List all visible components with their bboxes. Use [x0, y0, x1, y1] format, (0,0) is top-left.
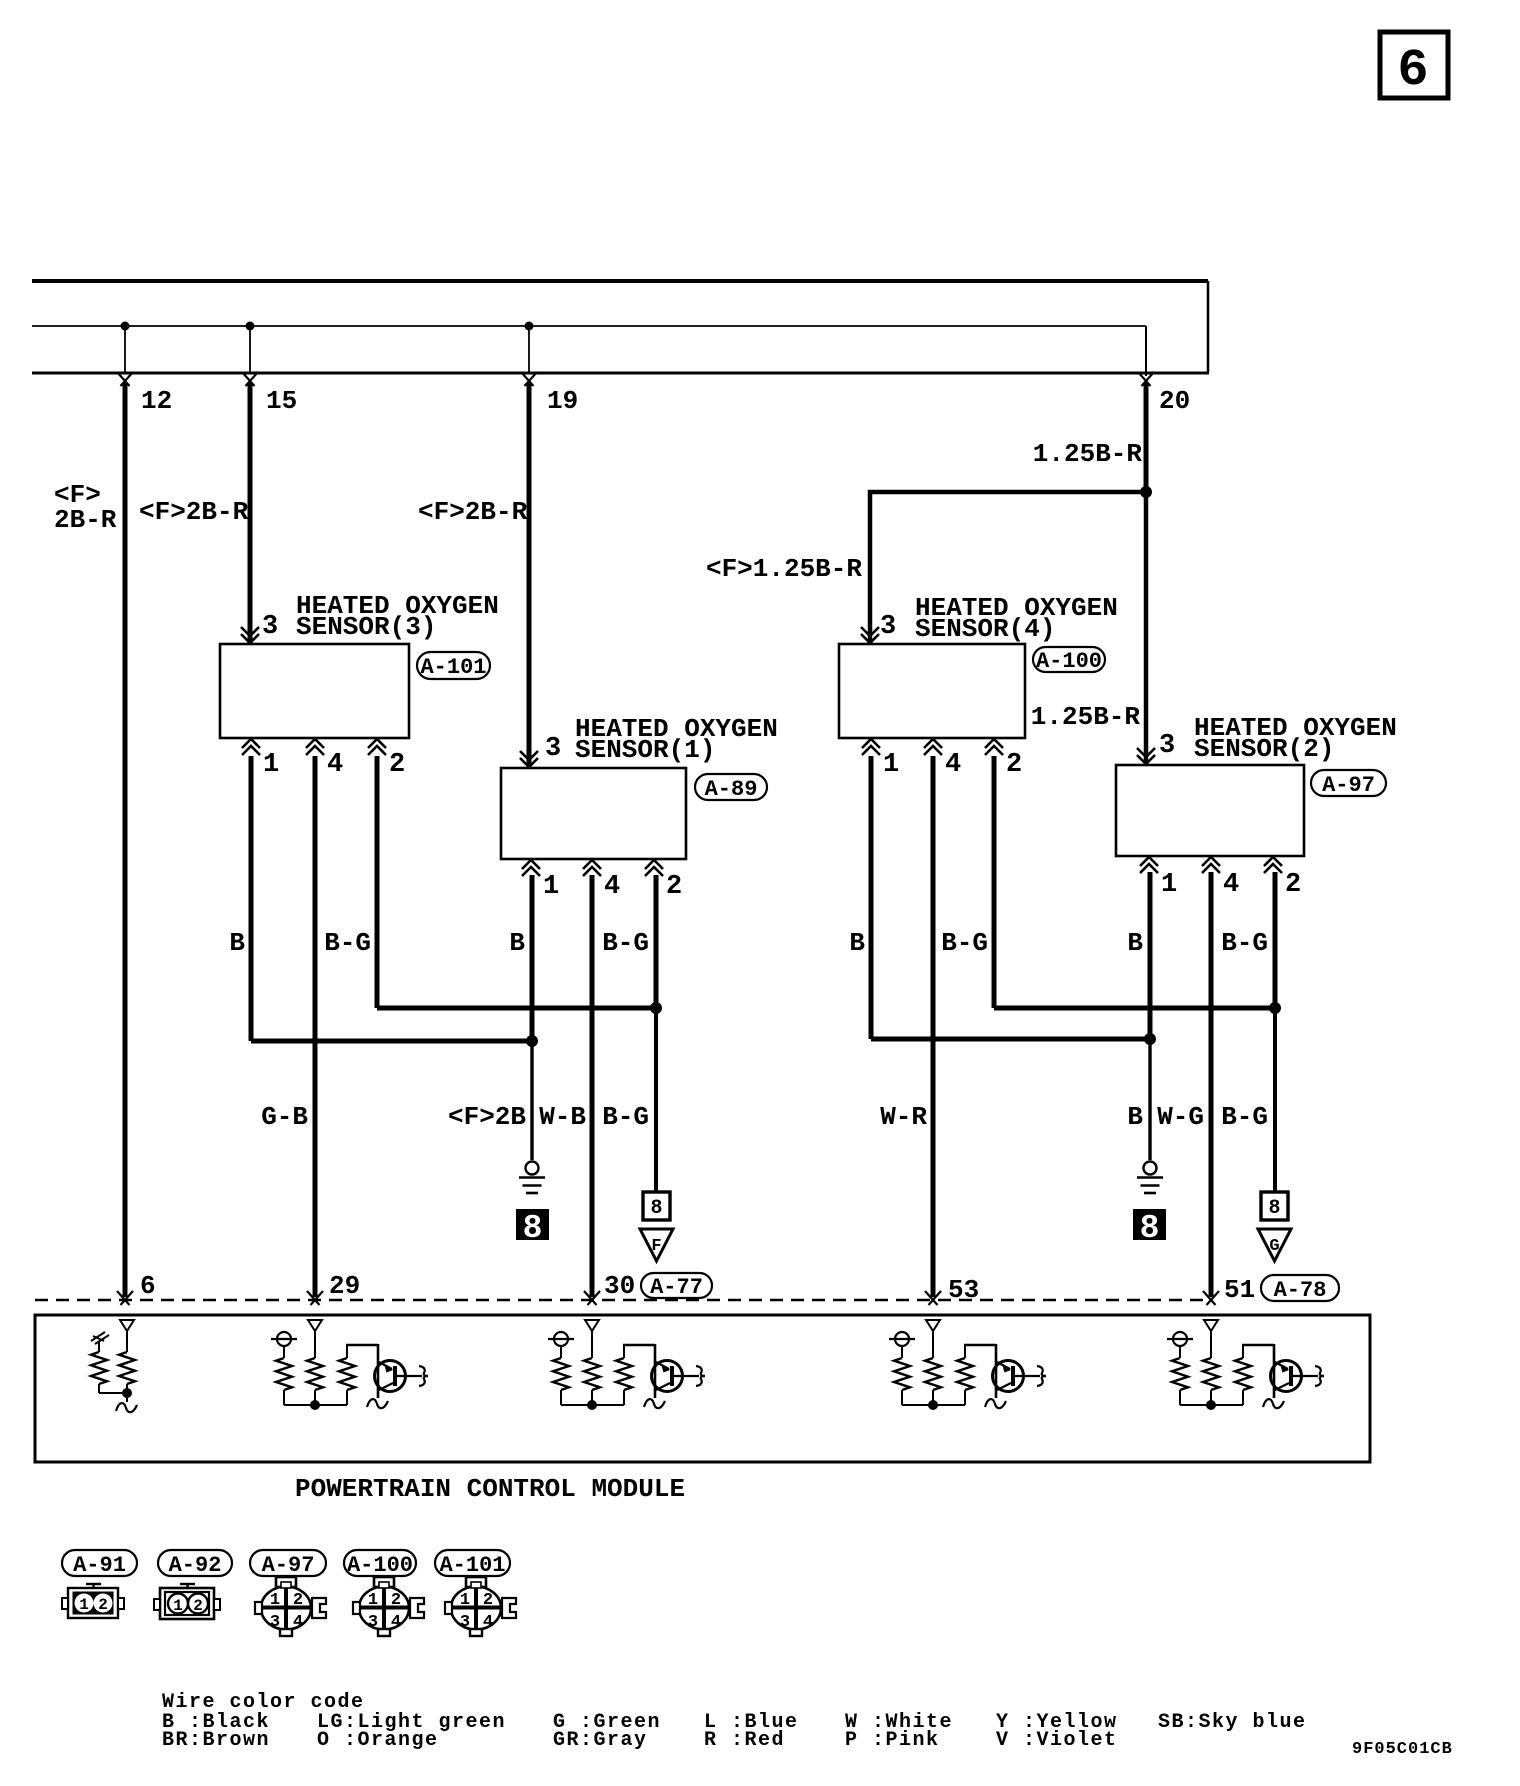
wire label (F)2B (lower) at x=526 — [448, 1102, 526, 1132]
ground group marker 8 (black box) — [1133, 1209, 1166, 1247]
joint connector 8 (white box) at x=656.5 — [643, 1192, 670, 1220]
node junction B-G wires right — [1269, 1002, 1281, 1014]
PCM pin51 input triangle — [1204, 1320, 1218, 1358]
wire label B (upper) at x=1143 — [1127, 928, 1143, 958]
svg-text:A-100: A-100 — [1036, 649, 1102, 674]
pin number 15 — [266, 386, 297, 416]
connector pill A-91 (legend row) — [62, 1550, 137, 1578]
PCM pin30 wire resistor to transistor — [623, 1344, 655, 1398]
arrow into PCM at x=125 — [117, 1291, 133, 1305]
svg-text:2: 2 — [1006, 750, 1022, 780]
heated oxygen sensor (1) A-89 pin 4 arrow — [583, 860, 601, 876]
wire B-G from sensor3 pin2 — [377, 756, 656, 1008]
wire bus line 1 (top) — [32, 281, 1208, 372]
connector pill A-100 (legend row) — [344, 1550, 416, 1578]
heated oxygen sensor (2) A-97 pin 3 arrow — [1137, 748, 1155, 764]
connector drawing A-97 — [255, 1577, 326, 1636]
svg-text:POWERTRAIN CONTROL MODULE: POWERTRAIN CONTROL MODULE — [295, 1474, 685, 1504]
PCM pin51 transistor — [1271, 1361, 1325, 1392]
heated oxygen sensor (1) A-89 pin 1 arrow — [522, 860, 540, 876]
connector pill A-92 (legend row) — [158, 1550, 232, 1578]
heated oxygen sensor (1) A-89 pin 4 label — [604, 872, 620, 902]
arrow pin 15 — [242, 372, 258, 386]
node junction wire 19 on bus — [525, 322, 534, 375]
svg-text:8: 8 — [1140, 1210, 1160, 1247]
wire W-B from sensor1 pin4 to PCM 30 — [590, 875, 595, 1297]
svg-text:A-78: A-78 — [1274, 1278, 1327, 1303]
heated oxygen sensor (1) A-89 box — [501, 768, 686, 859]
heated oxygen sensor (2) A-97 box — [1116, 765, 1304, 856]
svg-text:2: 2 — [293, 1591, 303, 1610]
svg-text:P :Pink: P :Pink — [845, 1729, 940, 1752]
connector pill A-77 — [641, 1273, 712, 1300]
node junction wire 12 on bus — [121, 322, 130, 375]
pin number 12 — [141, 386, 172, 416]
wire label B-G (upper) at x=988 — [941, 928, 988, 958]
PCM pin29 supply symbol — [271, 1332, 297, 1358]
heated oxygen sensor (4) A-100 box — [839, 644, 1025, 738]
PCM pin6 resistor left — [91, 1352, 107, 1393]
wire label B (upper) at x=245 — [229, 928, 245, 958]
wire color code legend — [162, 1691, 1307, 1752]
heated oxygen sensor (4) A-100 pin 1 arrow — [862, 739, 880, 755]
svg-text:4: 4 — [1223, 870, 1239, 900]
svg-text:O :Orange: O :Orange — [317, 1729, 439, 1752]
wire B-G from sensor2 pin2 to joint connector — [1273, 872, 1278, 1193]
arrow into PCM at x=933 — [925, 1291, 941, 1305]
PCM pin53 bottom node — [902, 1400, 965, 1410]
PCM pin29 wire resistor to transistor — [346, 1344, 378, 1398]
wire label W-R (lower) at x=927 — [880, 1102, 927, 1132]
svg-text:<F>2B: <F>2B — [448, 1102, 526, 1132]
node junction B-G wires left — [650, 1002, 662, 1014]
svg-text:29: 29 — [329, 1271, 360, 1301]
svg-text:G: G — [1269, 1237, 1279, 1256]
wire B from sensor2 pin1 to ground — [1148, 872, 1153, 1160]
wire label B (upper) at x=525 — [509, 928, 525, 958]
wire bus line 3 (bottom) — [32, 372, 1209, 375]
svg-text:2: 2 — [483, 1591, 493, 1610]
PCM pin29 resistor middle — [307, 1358, 323, 1405]
svg-text:G-B: G-B — [261, 1102, 308, 1132]
PCM pin number 29 — [329, 1271, 360, 1301]
svg-text:8: 8 — [523, 1210, 543, 1247]
svg-text:B: B — [229, 928, 245, 958]
PCM pin53 supply symbol — [889, 1332, 915, 1358]
heated oxygen sensor (4) A-100 pin 1 label — [883, 750, 899, 780]
PCM pin51 supply symbol — [1167, 1332, 1193, 1358]
svg-text:A-89: A-89 — [705, 777, 758, 802]
powertrain control module label — [295, 1474, 685, 1504]
svg-text:30: 30 — [604, 1271, 635, 1301]
heated oxygen sensor (3) A-101 title — [296, 591, 499, 642]
connector drawing A-101 — [445, 1577, 516, 1636]
PCM pin51 resistor middle — [1203, 1358, 1219, 1405]
svg-text:4: 4 — [945, 750, 961, 780]
heated oxygen sensor (1) A-89 pin 2 arrow — [645, 860, 663, 876]
svg-text:W-R: W-R — [880, 1102, 927, 1132]
wire label B-G (upper) at x=1268 — [1221, 928, 1268, 958]
wire 20 (1.25B-R) down to junction — [1144, 383, 1149, 492]
svg-text:1: 1 — [173, 1597, 183, 1615]
svg-text:3: 3 — [368, 1613, 378, 1632]
wire label G-B (lower) at x=308 — [261, 1102, 308, 1132]
heated oxygen sensor (3) A-101 pin 1 label — [263, 750, 279, 780]
svg-text:19: 19 — [547, 386, 578, 416]
svg-text:1: 1 — [263, 750, 279, 780]
PCM pin29 resistor left — [276, 1358, 292, 1405]
wire B from sensor1 pin1 to ground — [530, 875, 535, 1160]
PCM pin30 resistor left — [553, 1358, 569, 1405]
svg-text:2B-R: 2B-R — [54, 505, 117, 535]
wire B from sensor3 pin1 — [251, 756, 532, 1041]
svg-text:SENSOR(1): SENSOR(1) — [575, 735, 715, 765]
svg-text:4: 4 — [604, 872, 620, 902]
PCM pin53 wire resistor to transistor — [964, 1344, 996, 1398]
heated oxygen sensor (2) A-97 pin 1 arrow — [1140, 857, 1158, 873]
PCM pin number 30 — [604, 1271, 635, 1301]
PCM pin30 resistor middle — [584, 1358, 600, 1405]
svg-text:B-G: B-G — [602, 1102, 649, 1132]
svg-text:8: 8 — [1268, 1197, 1280, 1220]
svg-text:1: 1 — [1161, 870, 1177, 900]
heated oxygen sensor (2) A-97 pin 1 label — [1161, 870, 1177, 900]
wire B-G from sensor4 pin2 — [994, 756, 1275, 1008]
PCM boundary dashed line — [35, 1299, 1212, 1301]
PCM pin30 resistor right — [616, 1345, 632, 1405]
heated oxygen sensor (2) A-97 pin 2 label — [1285, 870, 1301, 900]
PCM pin30 transistor emitter squiggle — [644, 1399, 665, 1408]
wire label 1.25B-R for wire 20 — [1033, 439, 1143, 469]
svg-text:B-G: B-G — [1221, 1102, 1268, 1132]
arrow pin 19 — [521, 372, 537, 386]
pin number 19 — [547, 386, 578, 416]
joint connector 8 (white box) at x=1274.5 — [1261, 1192, 1288, 1220]
svg-text:6: 6 — [140, 1271, 156, 1301]
heated oxygen sensor (3) A-101 pin 2 arrow — [368, 739, 386, 755]
PCM pin29 transistor emitter squiggle — [367, 1399, 388, 1408]
svg-text:W-G: W-G — [1157, 1102, 1204, 1132]
arrow into PCM at x=315 — [307, 1291, 323, 1305]
svg-text:W-B: W-B — [539, 1102, 586, 1132]
heated oxygen sensor (3) A-101 pin 2 label — [389, 750, 405, 780]
svg-text:2: 2 — [98, 1596, 108, 1614]
arrow pin 12 — [117, 372, 133, 386]
svg-text:BR:Brown: BR:Brown — [162, 1729, 270, 1752]
PCM pin6 input triangle — [120, 1320, 134, 1352]
wire 20 continue to sensor 2 pin 3 — [1144, 492, 1149, 763]
PCM pin30 transistor — [652, 1361, 706, 1392]
PCM pin number 6 — [140, 1271, 156, 1301]
PCM pin53 transistor — [993, 1361, 1047, 1392]
svg-text:4: 4 — [391, 1613, 401, 1632]
ground group marker 8 (black box) — [516, 1209, 549, 1247]
wire label B (lower) at x=1143 — [1127, 1102, 1143, 1132]
wire label B-G (lower) at x=1268 — [1221, 1102, 1268, 1132]
PCM pin51 bottom node — [1180, 1400, 1243, 1410]
svg-text:B-G: B-G — [941, 928, 988, 958]
svg-text:B: B — [509, 928, 525, 958]
heated oxygen sensor (3) A-101 pin 3 label — [262, 612, 278, 642]
wire label 1.25B-R above sensor 2 — [1031, 702, 1141, 732]
heated oxygen sensor (2) A-97 pin 2 arrow — [1264, 857, 1282, 873]
wire label B-G (lower) at x=649 — [602, 1102, 649, 1132]
wire label B-G (upper) at x=371 — [324, 928, 371, 958]
svg-text:SENSOR(4): SENSOR(4) — [915, 614, 1055, 644]
svg-text:F: F — [651, 1237, 661, 1256]
svg-text:1: 1 — [460, 1591, 470, 1610]
wire label B-G (upper) at x=649 — [602, 928, 649, 958]
wire bus line 2 (middle) — [32, 326, 1146, 376]
svg-text:3: 3 — [545, 734, 561, 764]
svg-text:20: 20 — [1159, 386, 1190, 416]
wire branch to sensor 4 pin 3 — [868, 490, 1146, 643]
svg-text:3: 3 — [880, 612, 896, 642]
PCM pin number 51 — [1224, 1275, 1255, 1305]
PCM pin51 resistor left — [1172, 1358, 1188, 1405]
svg-text:1: 1 — [543, 872, 559, 902]
heated oxygen sensor (2) A-97 pin 4 label — [1223, 870, 1239, 900]
svg-text:B-G: B-G — [602, 928, 649, 958]
heated oxygen sensor (2) A-97 connector pill — [1311, 770, 1386, 798]
PCM pin53 resistor middle — [925, 1358, 941, 1405]
ground symbol (right) — [1137, 1162, 1163, 1194]
svg-text:12: 12 — [141, 386, 172, 416]
svg-text:A-97: A-97 — [262, 1553, 315, 1578]
svg-text:GR:Gray: GR:Gray — [553, 1729, 648, 1752]
PCM pin6 resistor right — [119, 1352, 135, 1393]
arrow pin 20 — [1138, 372, 1154, 386]
svg-text:4: 4 — [293, 1613, 303, 1632]
svg-text:<F>1.25B-R: <F>1.25B-R — [706, 554, 862, 584]
svg-text:4: 4 — [327, 750, 343, 780]
wire 19 (2B-R) down to sensor 1 pin 3 — [527, 383, 532, 766]
svg-text:A-91: A-91 — [73, 1553, 126, 1578]
svg-text:3: 3 — [460, 1613, 470, 1632]
svg-text:3: 3 — [1159, 731, 1175, 761]
PCM pin53 transistor emitter squiggle — [985, 1399, 1006, 1408]
svg-text:3: 3 — [270, 1613, 280, 1632]
heated oxygen sensor (4) A-100 title — [915, 593, 1118, 644]
heated oxygen sensor (4) A-100 pin 3 label — [880, 612, 896, 642]
wire W-R from sensor4 pin4 to PCM 53 — [931, 756, 936, 1297]
heated oxygen sensor (3) A-101 pin 3 arrow — [241, 627, 259, 643]
svg-text:9F05C01CB: 9F05C01CB — [1352, 1740, 1453, 1759]
svg-text:A-97: A-97 — [1322, 773, 1375, 798]
connector pill A-97 (legend row) — [250, 1550, 326, 1578]
ground symbol (left) — [519, 1162, 545, 1194]
node junction wire 15 on bus — [246, 322, 255, 375]
svg-text:A-101: A-101 — [439, 1553, 505, 1578]
PCM pin51 transistor emitter squiggle — [1263, 1399, 1284, 1408]
svg-text:1: 1 — [270, 1591, 280, 1610]
PCM pin30 input triangle — [585, 1320, 599, 1358]
svg-text:2: 2 — [1285, 870, 1301, 900]
heated oxygen sensor (4) A-100 pin 2 label — [1006, 750, 1022, 780]
svg-text:1.25B-R: 1.25B-R — [1031, 702, 1141, 732]
wire label W-B (lower) at x=586 — [539, 1102, 586, 1132]
arrow into PCM at x=592 — [584, 1291, 600, 1305]
PCM pin number 53 — [948, 1275, 979, 1305]
svg-text:15: 15 — [266, 386, 297, 416]
heated oxygen sensor (3) A-101 pin 1 arrow — [242, 739, 260, 755]
svg-text:<F>2B-R: <F>2B-R — [139, 497, 249, 527]
wire B from sensor4 pin1 — [871, 756, 1150, 1039]
page number box 6 — [1380, 32, 1448, 100]
heated oxygen sensor (1) A-89 pin 3 arrow — [520, 751, 538, 767]
connector drawing A-92 — [154, 1584, 220, 1619]
svg-text:A-77: A-77 — [650, 1275, 703, 1300]
PCM pin53 resistor left — [894, 1358, 910, 1405]
heated oxygen sensor (3) A-101 connector pill — [417, 652, 490, 680]
wire W-G from sensor2 pin4 to PCM 51 — [1209, 872, 1214, 1297]
PCM pin29 resistor right — [339, 1345, 355, 1405]
connector pill A-101 (legend row) — [435, 1550, 510, 1578]
svg-text:B: B — [1127, 1102, 1143, 1132]
svg-text:A-101: A-101 — [420, 655, 486, 680]
svg-text:B: B — [1127, 928, 1143, 958]
svg-text:2: 2 — [666, 872, 682, 902]
connector drawing A-91 — [62, 1584, 124, 1618]
svg-text:R :Red: R :Red — [704, 1729, 785, 1752]
svg-text:1.25B-R: 1.25B-R — [1033, 439, 1143, 469]
svg-text:B-G: B-G — [324, 928, 371, 958]
wire label W-G (lower) at x=1204 — [1157, 1102, 1204, 1132]
svg-text:2: 2 — [389, 750, 405, 780]
heated oxygen sensor (3) A-101 box — [220, 644, 409, 738]
svg-text:SENSOR(2): SENSOR(2) — [1194, 734, 1334, 764]
wire label (F)2B-R for wire 19 — [418, 497, 528, 527]
heated oxygen sensor (1) A-89 pin 3 label — [545, 734, 561, 764]
svg-text:B: B — [849, 928, 865, 958]
document code 9F05C01CB — [1352, 1740, 1453, 1759]
heated oxygen sensor (2) A-97 pin 3 label — [1159, 731, 1175, 761]
heated oxygen sensor (1) A-89 connector pill — [695, 774, 767, 802]
destination triangle F — [640, 1229, 673, 1261]
svg-text:4: 4 — [483, 1613, 493, 1632]
node junction B wires left — [526, 1035, 538, 1047]
heated oxygen sensor (4) A-100 connector pill — [1033, 647, 1105, 674]
arrow into PCM at x=1211 — [1203, 1291, 1219, 1305]
svg-text:6: 6 — [1397, 41, 1428, 100]
svg-text:3: 3 — [262, 612, 278, 642]
heated oxygen sensor (4) A-100 pin 2 arrow — [985, 739, 1003, 755]
PCM pin51 resistor right — [1235, 1345, 1251, 1405]
connector drawing A-100 — [353, 1577, 424, 1636]
heated oxygen sensor (2) A-97 title — [1194, 713, 1397, 764]
node junction B wires right — [1144, 1033, 1156, 1045]
svg-text:SB:Sky blue: SB:Sky blue — [1158, 1711, 1307, 1734]
heated oxygen sensor (1) A-89 title — [575, 714, 778, 765]
svg-text:2: 2 — [391, 1591, 401, 1610]
heated oxygen sensor (2) A-97 pin 4 arrow — [1202, 857, 1220, 873]
PCM pin6 reference squiggle — [91, 1332, 109, 1352]
svg-text:51: 51 — [1224, 1275, 1255, 1305]
heated oxygen sensor (3) A-101 pin 4 label — [327, 750, 343, 780]
svg-text:1: 1 — [368, 1591, 378, 1610]
node junction wire 20 branch — [1140, 486, 1152, 498]
svg-text:SENSOR(3): SENSOR(3) — [296, 612, 436, 642]
svg-text:<F>2B-R: <F>2B-R — [418, 497, 528, 527]
PCM pin30 supply symbol — [548, 1332, 574, 1358]
svg-text:B-G: B-G — [1221, 928, 1268, 958]
PCM pin53 input triangle — [926, 1320, 940, 1358]
wire label (F)2B-R for wire 15 — [139, 497, 249, 527]
PCM pin51 wire resistor to transistor — [1242, 1344, 1274, 1398]
wire B-G from sensor1 pin2 to joint connector — [654, 875, 659, 1193]
PCM pin6 node — [99, 1388, 137, 1412]
wire label (F)1.25B-R for sensor 4 branch — [706, 554, 862, 584]
wire 12 (2B-R) down to PCM pin 6 — [123, 383, 128, 1297]
powertrain control module box — [35, 1315, 1370, 1462]
heated oxygen sensor (4) A-100 pin 4 label — [945, 750, 961, 780]
destination triangle G — [1258, 1229, 1291, 1261]
wire G-B from sensor3 pin4 to PCM 29 — [313, 756, 318, 1297]
PCM pin29 transistor — [375, 1361, 429, 1392]
heated oxygen sensor (4) A-100 pin 4 arrow — [924, 739, 942, 755]
PCM pin30 bottom node — [561, 1400, 624, 1410]
heated oxygen sensor (1) A-89 pin 2 label — [666, 872, 682, 902]
heated oxygen sensor (1) A-89 pin 1 label — [543, 872, 559, 902]
pin number 20 — [1159, 386, 1190, 416]
svg-text:8: 8 — [650, 1197, 662, 1220]
svg-text:V :Violet: V :Violet — [996, 1729, 1118, 1752]
heated oxygen sensor (4) A-100 pin 3 arrow — [861, 627, 879, 643]
PCM pin53 resistor right — [957, 1345, 973, 1405]
heated oxygen sensor (3) A-101 pin 4 arrow — [306, 739, 324, 755]
PCM pin29 bottom node — [284, 1400, 347, 1410]
svg-text:1: 1 — [883, 750, 899, 780]
svg-text:2: 2 — [193, 1597, 203, 1615]
wire label B (upper) at x=865 — [849, 928, 865, 958]
connector pill A-78 — [1261, 1275, 1339, 1303]
wire 15 (2B-R) down to sensor 3 pin 3 — [248, 383, 253, 643]
svg-text:1: 1 — [79, 1596, 89, 1614]
wire label (F) 2B-R for wire 12 — [54, 480, 117, 535]
PCM pin29 input triangle — [308, 1320, 322, 1358]
svg-text:A-100: A-100 — [347, 1553, 413, 1578]
svg-text:A-92: A-92 — [169, 1553, 222, 1578]
